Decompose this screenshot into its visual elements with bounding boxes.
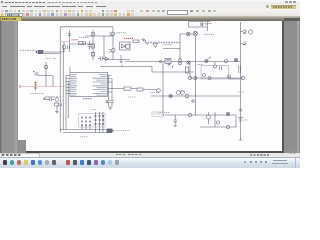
capacitor C13 right rail xyxy=(239,66,241,70)
capacitor C10 xyxy=(220,66,222,70)
diode VD1 inside U2 xyxy=(122,44,126,48)
label U2 red xyxy=(124,37,133,39)
zener VD2 xyxy=(153,44,158,48)
capacitor C3 xyxy=(98,57,105,61)
wire U2 bottom xyxy=(104,59,130,61)
tick on long wire xyxy=(121,65,123,68)
wire y90 xyxy=(131,89,157,90)
lamp HL11 xyxy=(188,113,191,116)
capacitor C4 polarized xyxy=(33,71,39,75)
capacitor C16 xyxy=(84,41,86,45)
wire x228 stub xyxy=(229,78,241,80)
MCU U1 right pin labels xyxy=(93,74,107,95)
MCU left pin wires xyxy=(66,76,70,94)
wire long to right block xyxy=(100,67,194,73)
title bar xyxy=(0,0,300,4)
white sheet xyxy=(18,21,282,151)
capacitor C17 xyxy=(107,101,110,107)
tan badge top right xyxy=(271,5,296,11)
label ZQ gray xyxy=(197,64,203,66)
wire row2 xyxy=(190,77,243,79)
label near caps gray xyxy=(128,96,136,98)
label VT5 gray xyxy=(179,91,185,93)
capacitor C1 xyxy=(68,46,70,50)
yellow page tab xyxy=(0,16,22,23)
red net segment xyxy=(60,41,70,43)
transistor VT6 xyxy=(207,115,211,119)
circle U2 xyxy=(125,44,129,48)
resistor R10 xyxy=(91,53,94,57)
plus marks xyxy=(168,63,173,68)
wire input left pair xyxy=(44,53,60,55)
arrows optocoupler xyxy=(142,39,149,45)
label XP3 xyxy=(116,130,130,132)
comparator U2 box xyxy=(120,42,131,50)
wire x113 xyxy=(112,27,114,60)
diode VD7 xyxy=(241,42,247,45)
ground U2 xyxy=(119,55,122,63)
red net wire xyxy=(20,86,66,88)
wire y36 xyxy=(85,35,113,37)
wire x104 xyxy=(103,36,105,60)
wire C4 branch xyxy=(38,76,53,87)
dropdown box in toolbar xyxy=(167,10,188,16)
work area xyxy=(0,21,300,153)
clock xyxy=(273,160,287,162)
wire LED row1 xyxy=(125,61,241,63)
diode VD8 tick xyxy=(205,23,207,25)
wire second left rail xyxy=(62,45,64,130)
wire right main vertical xyxy=(194,36,196,115)
lamp HL16 xyxy=(187,32,191,36)
sheet bottom-left gray corner xyxy=(17,140,26,153)
sheet dark right border xyxy=(282,21,284,153)
label row4 gray xyxy=(158,112,170,114)
transistor VT4 xyxy=(55,98,59,102)
keypad S1 box xyxy=(79,114,106,128)
wire row5 xyxy=(200,115,236,127)
wire VCC left rail xyxy=(59,27,61,133)
wire left pin verticals xyxy=(66,67,70,130)
capacitor C6 xyxy=(60,103,62,106)
wire y44 xyxy=(70,43,93,45)
wire right bend xyxy=(163,34,187,62)
lamp HL18 on vertical xyxy=(194,77,197,80)
label row3 gray xyxy=(150,92,160,94)
label note xyxy=(154,113,162,115)
wire row2 drop xyxy=(189,64,191,79)
wide button second row xyxy=(5,13,23,18)
toolbar xyxy=(0,9,300,16)
resistor R5 xyxy=(55,103,59,106)
resistor R9 xyxy=(79,42,83,45)
transistor VT9 xyxy=(185,94,189,98)
lamp HL8 xyxy=(208,77,211,80)
tab bar xyxy=(0,16,300,21)
MCU right pin wires xyxy=(108,76,125,93)
resistor R3 xyxy=(91,44,94,48)
resize grip xyxy=(288,149,296,154)
sheet dark bottom border xyxy=(26,151,284,153)
lamp HL6 xyxy=(214,65,217,68)
label CON gray xyxy=(163,44,172,46)
crystal ZQ1 xyxy=(238,118,243,122)
transistor VT5 xyxy=(177,91,181,95)
transistor VT1 xyxy=(62,45,66,49)
relay K1 xyxy=(165,59,171,64)
label top xyxy=(207,23,213,25)
wire x163 vertical xyxy=(162,62,164,116)
note box xyxy=(152,112,163,117)
label under input gray xyxy=(45,58,57,60)
capacitor C14 right rail xyxy=(239,109,242,111)
schematic SVG overlay xyxy=(0,0,300,168)
status bar xyxy=(0,153,300,157)
cross mark xyxy=(44,98,46,100)
left gray panel xyxy=(0,21,17,153)
label R9 gray xyxy=(79,37,89,39)
label R1 red xyxy=(72,39,79,41)
capacitor C7 xyxy=(201,23,203,27)
red tick left xyxy=(19,85,21,88)
keypad column wires xyxy=(82,112,103,133)
wire x215 stub xyxy=(214,62,216,66)
wire bottom rail lower xyxy=(63,132,108,134)
lamp HL7 xyxy=(189,77,192,80)
lamp HL2 xyxy=(187,61,190,64)
label XS1 xyxy=(20,50,36,52)
lamp HL1 xyxy=(178,59,182,63)
lamp HL15 xyxy=(225,60,228,63)
wire input left xyxy=(44,51,63,53)
wire row3 xyxy=(151,95,241,97)
wire between lamps xyxy=(190,33,193,35)
capacitor C18 xyxy=(110,101,113,107)
capacitor C11 xyxy=(239,69,241,73)
wire row4 xyxy=(163,114,236,116)
wire top right U xyxy=(189,22,211,32)
resistor R2 xyxy=(91,33,94,36)
resistor R6 xyxy=(185,67,188,73)
capacitor C2 xyxy=(88,41,91,49)
transistor VT8 xyxy=(157,89,161,93)
diode VD6 xyxy=(241,30,247,33)
label bottom gray xyxy=(91,109,97,111)
diode VD4 vertical xyxy=(44,65,48,69)
transistor VT7 xyxy=(249,30,253,34)
wire x69.5 vertical xyxy=(69,30,71,52)
ground VT4 xyxy=(55,106,59,113)
junction row1 xyxy=(160,61,162,63)
lamp HL10 xyxy=(169,94,172,97)
capacitor C5 xyxy=(46,98,54,102)
wire x215 xyxy=(214,112,216,127)
label VT2 gray xyxy=(117,32,127,34)
capacitor C15 xyxy=(68,34,71,36)
lamp HL12 xyxy=(216,121,219,124)
diode VD3 xyxy=(106,57,109,60)
keypad buttons group1 xyxy=(81,117,91,126)
connector XP3 xyxy=(107,129,112,133)
lamp HL17 xyxy=(193,31,197,35)
lamp HL3 xyxy=(205,60,208,63)
keypad buttons group2 xyxy=(95,115,104,125)
resistor R8 xyxy=(137,88,143,91)
resistor R7 xyxy=(124,87,131,90)
wire VD4 xyxy=(45,62,47,87)
connector XS1 xyxy=(38,51,43,54)
resistor R4 xyxy=(133,40,139,42)
label sheet bottom gray xyxy=(80,136,88,138)
wire bottom rail upper xyxy=(60,129,106,131)
MCU U1 left pin labels xyxy=(71,74,77,95)
lamp HL14 xyxy=(226,125,229,128)
ground right rail end xyxy=(239,139,243,141)
wire node VT1 xyxy=(63,42,65,52)
menu bar xyxy=(0,4,300,9)
ground C12 xyxy=(174,126,177,127)
MCU U1 box xyxy=(70,72,108,96)
lamp HL5 xyxy=(235,59,238,62)
ground MCU caps xyxy=(108,107,113,109)
red mark right of U1 xyxy=(106,101,108,102)
junction row3 xyxy=(192,100,194,102)
lamp HL9 xyxy=(242,77,245,80)
label ZQ1 xyxy=(244,119,248,121)
label AC gray xyxy=(145,42,180,44)
label right rail gray xyxy=(238,91,244,93)
lamp HL13 xyxy=(227,113,230,116)
transistor VT3 xyxy=(111,48,115,52)
label under red wire xyxy=(30,93,44,95)
wire MCU bottom verticals xyxy=(109,76,113,101)
wire VT4 top xyxy=(44,96,57,98)
label VD5 gray xyxy=(204,34,214,36)
capacitor C12 xyxy=(174,115,177,125)
wire VCC top rail xyxy=(60,26,113,28)
red connector XP2 xyxy=(34,82,37,91)
transistor VT2 xyxy=(111,32,115,36)
wire far right rail xyxy=(240,22,242,140)
taskbar xyxy=(0,157,300,169)
right gray panel xyxy=(284,21,301,153)
label U1 ATmega xyxy=(83,98,92,100)
wire mid vertical xyxy=(92,30,94,60)
